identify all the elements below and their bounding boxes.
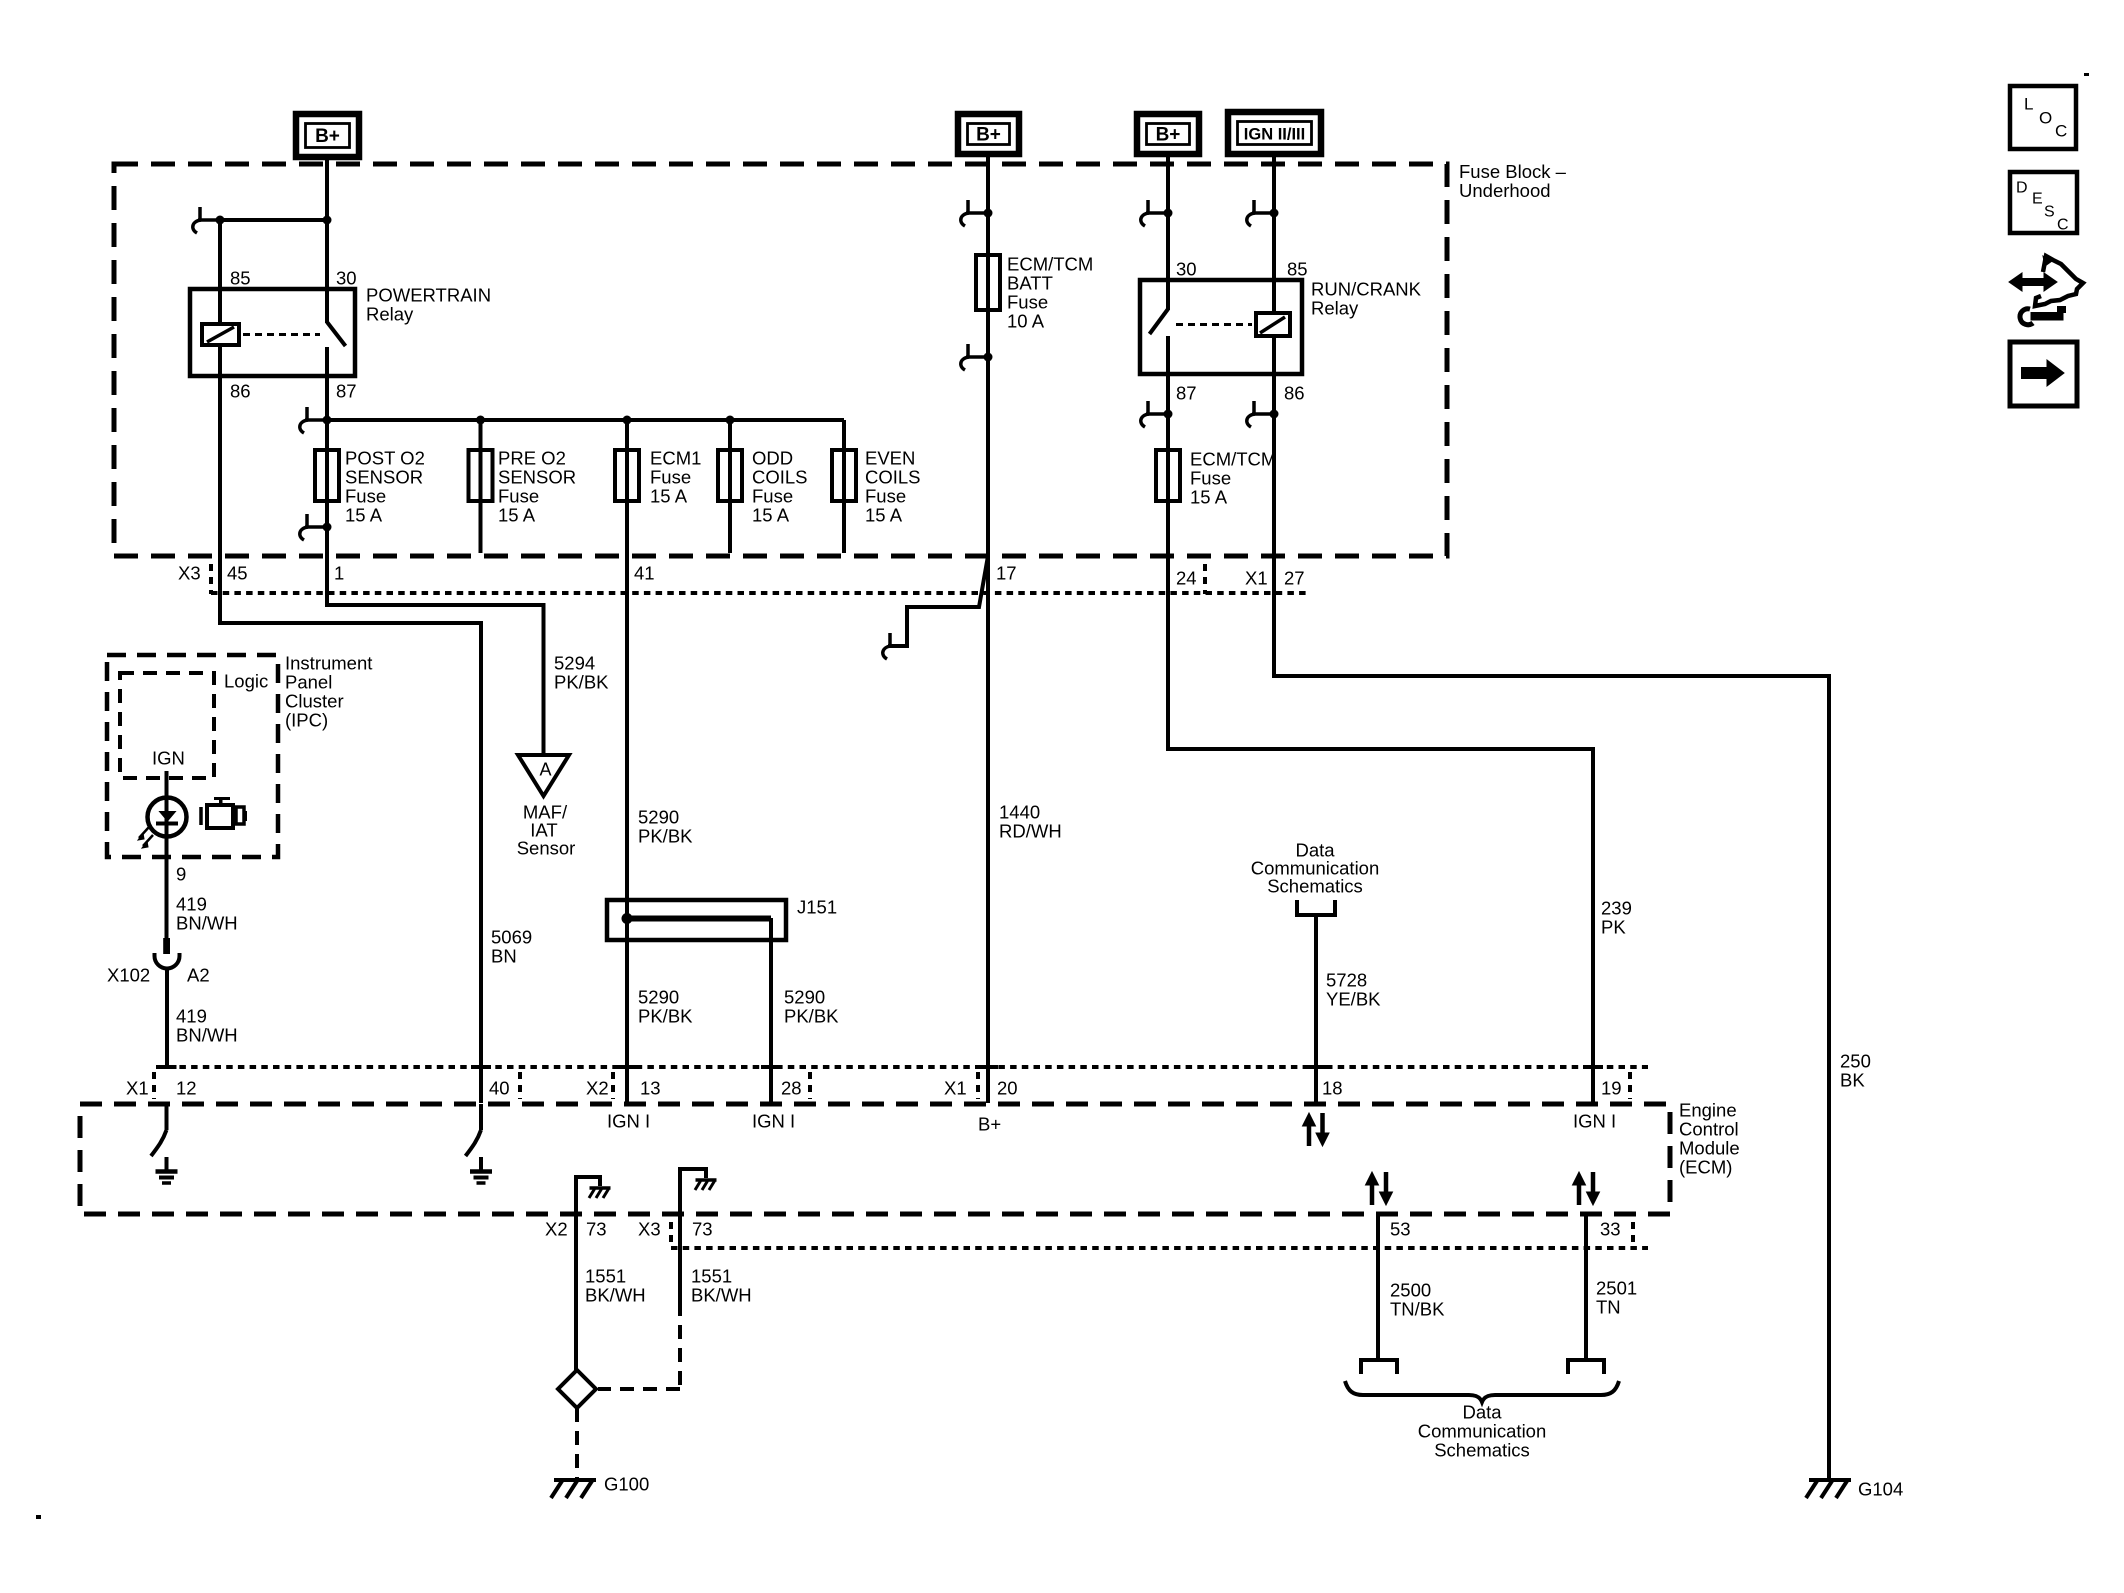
svg-text:86: 86 [230, 380, 251, 401]
icon vehicle diagnostic glyph [2009, 256, 2083, 325]
svg-text:G100: G100 [604, 1473, 649, 1494]
label 5290 PK/BK lower left [638, 986, 693, 1026]
wire 2500 TN/BK from pin 53 [1376, 1214, 1380, 1359]
svg-text:BK/WH: BK/WH [691, 1284, 752, 1305]
svg-text:C: C [2055, 121, 2067, 140]
hook continuation on x988 wire upper [961, 200, 993, 226]
svg-text:250: 250 [1840, 1050, 1871, 1071]
junction ODD COILS fuse tap [726, 416, 735, 425]
svg-text:15 A: 15 A [752, 504, 790, 525]
label Instrument Panel Cluster (IPC) [285, 652, 372, 730]
svg-text:COILS: COILS [752, 466, 808, 487]
svg-text:30: 30 [1176, 258, 1197, 279]
svg-text:EVEN: EVEN [865, 447, 915, 468]
icon forward arrow box [2010, 342, 2077, 406]
svg-text:J151: J151 [797, 896, 837, 917]
svg-text:O: O [2039, 108, 2052, 127]
label X102 [107, 964, 150, 985]
dotted tick after pin 40 [518, 1072, 522, 1099]
pin 85 label [230, 267, 251, 288]
connector X3 dotted tick [209, 564, 213, 594]
icon LOC box [2010, 86, 2076, 149]
pin 17 label [996, 562, 1017, 583]
label Engine Control Module (ECM) [1679, 1099, 1740, 1177]
fuse block connector dotted line [211, 591, 1310, 595]
wire B+ x1168 down to relay pin 30 [1166, 164, 1170, 280]
svg-text:5294: 5294 [554, 652, 595, 673]
ECM data arrows pin 18 [1303, 1113, 1330, 1146]
label Data Communication Schematics (upper) [1251, 839, 1380, 896]
hook continuation on x1274 wire [1247, 200, 1279, 226]
label 5294 PK/BK [554, 652, 609, 692]
svg-text:PK/BK: PK/BK [784, 1005, 839, 1026]
svg-text:S: S [2044, 203, 2055, 220]
svg-text:24: 24 [1176, 567, 1197, 588]
bottom connector dotted line [671, 1246, 1648, 1250]
ground G104 chassis symbol [1806, 1480, 1851, 1498]
svg-text:X1: X1 [1245, 567, 1268, 588]
relay switch (run/crank) [1150, 280, 1169, 374]
wire branch jog at pin 17 [888, 556, 988, 646]
svg-text:10 A: 10 A [1007, 310, 1045, 331]
svg-text:Panel: Panel [285, 671, 332, 692]
label ODD COILS Fuse 15 A [752, 447, 808, 525]
svg-text:19: 19 [1601, 1077, 1622, 1098]
svg-text:D: D [2016, 179, 2028, 196]
dotted tick after pin 19 [1628, 1072, 1632, 1099]
wire 5294 PK/BK from pin 1 to MAF/IAT [327, 553, 544, 754]
svg-text:PK: PK [1601, 916, 1626, 937]
label 1440 RD/WH [999, 801, 1062, 841]
wire crossing ticks at ECM connector [157, 1065, 1604, 1069]
svg-text:239: 239 [1601, 897, 1632, 918]
svg-text:IGN I: IGN I [607, 1110, 650, 1131]
svg-text:33: 33 [1600, 1218, 1621, 1239]
svg-text:Schematics: Schematics [1267, 875, 1363, 896]
brace data communication [1345, 1381, 1619, 1402]
terminal cap 2501 [1568, 1360, 1604, 1374]
svg-text:(ECM): (ECM) [1679, 1156, 1732, 1177]
label IGN node [152, 747, 185, 768]
hook continuation below pin 87 [1141, 401, 1173, 427]
svg-text:73: 73 [692, 1218, 713, 1239]
svg-text:BK: BK [1840, 1069, 1865, 1090]
svg-text:85: 85 [1287, 258, 1308, 279]
svg-text:Fuse: Fuse [650, 466, 691, 487]
pin 73 label (X3) [692, 1218, 713, 1239]
label 2501 TN [1596, 1277, 1637, 1317]
label 250 BK [1840, 1050, 1871, 1090]
wire ODD COILS fuse column [728, 420, 732, 553]
label RUN/CRANK Relay [1311, 278, 1422, 318]
svg-text:A2: A2 [187, 964, 210, 985]
svg-text:Fuse: Fuse [752, 485, 793, 506]
svg-text:Fuse: Fuse [1007, 291, 1048, 312]
pin 20 label [997, 1077, 1018, 1098]
LED emission arrows [138, 827, 153, 848]
hook continuation at pin85 branch [193, 207, 225, 233]
net B+ label (pin 20) [978, 1113, 1001, 1134]
icon DESC box [2010, 172, 2077, 233]
pin 87 label [336, 380, 357, 401]
svg-text:X2: X2 [545, 1218, 568, 1239]
svg-text:X1: X1 [126, 1077, 149, 1098]
svg-text:5290: 5290 [638, 986, 679, 1007]
wire pin 87 down to ECM/TCM fuse [1166, 374, 1170, 553]
off-page bracket (data comm upper) [1297, 900, 1335, 915]
ECM internal earth ground (pin 40) [470, 1157, 492, 1183]
label ECM/TCM Fuse 15 A [1190, 448, 1276, 507]
fuse block - underhood dashed boundary [114, 164, 1447, 556]
label G100 [604, 1473, 649, 1494]
wire pin 87 down to fuse bus [325, 376, 329, 420]
svg-text:B+: B+ [315, 126, 340, 147]
ECM internal earth ground (pin 12) [156, 1157, 178, 1183]
label A2 [187, 964, 210, 985]
wire IGN II/III down to relay pin 85 [1272, 164, 1276, 313]
wire 1551 BK/WH X3-73 dashed to splice [598, 1214, 680, 1389]
label 1551 BK/WH (X2) [585, 1265, 646, 1305]
fuse F6 ECM/TCM BATT 10A [976, 255, 1000, 310]
svg-text:PRE O2: PRE O2 [498, 447, 566, 468]
svg-text:Relay: Relay [1311, 297, 1359, 318]
label EVEN COILS Fuse 15 A [865, 447, 921, 525]
fuse F5 EVEN COILS 15A [832, 450, 856, 501]
ECM internal ground lead X3-73 [680, 1169, 706, 1214]
label Fuse Block - Underhood [1459, 161, 1567, 201]
svg-text:1551: 1551 [691, 1265, 732, 1286]
ECM connector dotted line [156, 1065, 1648, 1069]
svg-text:Data: Data [1462, 1401, 1502, 1422]
svg-text:TN: TN [1596, 1296, 1621, 1317]
svg-text:B+: B+ [978, 1113, 1001, 1134]
label 419 BN/WH upper [176, 893, 238, 933]
svg-text:17: 17 [996, 562, 1017, 583]
svg-text:1440: 1440 [999, 801, 1040, 822]
label G104 [1858, 1478, 1903, 1499]
svg-text:40: 40 [489, 1077, 510, 1098]
connector X3 label (bottom) [638, 1218, 661, 1239]
svg-text:IGN I: IGN I [1573, 1110, 1616, 1131]
svg-text:13: 13 [640, 1077, 661, 1098]
dotted tick after pin 28 [808, 1072, 812, 1099]
wire pin 86 down to X1-27 [1272, 374, 1276, 553]
label MAF/IAT Sensor [517, 801, 576, 858]
label 5069 BN [491, 926, 532, 966]
power feed B+ (run/crank relay) [1137, 114, 1199, 154]
pin 28 label [781, 1077, 802, 1098]
svg-text:Cluster: Cluster [285, 690, 344, 711]
pin 19 label [1601, 1077, 1622, 1098]
fuse F2 PRE O2 SENSOR 15A [469, 450, 493, 501]
dotted tick after pin 33 [1631, 1222, 1635, 1248]
svg-text:Communication: Communication [1418, 1420, 1547, 1441]
wire ECM1 fuse column [625, 420, 629, 553]
dotted tick before pin 13 [611, 1072, 615, 1099]
wire down to pin 85 [218, 220, 222, 289]
svg-text:9: 9 [176, 863, 186, 884]
fuse F4 ODD COILS 15A [718, 450, 742, 501]
label 5290 PK/BK upper [638, 806, 693, 846]
relay coil-switch link dashed (run/crank) [1176, 323, 1252, 326]
wire 5728 YE/BK to ECM pin 18 [1314, 915, 1318, 1103]
svg-text:SENSOR: SENSOR [498, 466, 576, 487]
wire B+ to fuse block (x1168) [1166, 154, 1170, 168]
svg-text:E: E [2032, 190, 2043, 207]
fuse F3 ECM1 15A [615, 450, 639, 501]
svg-text:RD/WH: RD/WH [999, 820, 1062, 841]
svg-text:15 A: 15 A [1190, 486, 1228, 507]
label J151 [797, 896, 837, 917]
svg-text:Fuse: Fuse [865, 485, 906, 506]
pin 27 label [1284, 567, 1305, 588]
wire 5069 BN from X3-45 to ECM pin 40 [220, 553, 481, 1103]
relay switch (powertrain) [327, 289, 346, 376]
fuse F1 POST O2 SENSOR 15A [315, 450, 339, 501]
wire splice to G100 dashed [575, 1408, 579, 1478]
connector X3 label [178, 562, 201, 583]
svg-text:(IPC): (IPC) [285, 709, 328, 730]
svg-text:Engine: Engine [1679, 1099, 1737, 1120]
svg-text:12: 12 [176, 1077, 197, 1098]
svg-text:BN/WH: BN/WH [176, 1024, 238, 1045]
svg-text:1: 1 [334, 562, 344, 583]
ECM data arrows pin 53 [1366, 1172, 1393, 1205]
svg-text:419: 419 [176, 893, 207, 914]
svg-text:X2: X2 [586, 1077, 609, 1098]
pin 86 label (run/crank) [1284, 382, 1305, 403]
net IGN I label (pin 19) [1573, 1110, 1616, 1131]
svg-text:5290: 5290 [638, 806, 679, 827]
ECM data arrows pin 33 [1573, 1172, 1600, 1205]
connector X1 dotted tick (fuse block) [1203, 564, 1207, 594]
label 2500 TN/BK [1390, 1279, 1445, 1319]
svg-text:SENSOR: SENSOR [345, 466, 423, 487]
svg-text:Fuse: Fuse [498, 485, 539, 506]
net IGN I label (pin 28) [752, 1110, 795, 1131]
svg-text:15 A: 15 A [650, 485, 688, 506]
connector X2 label (bottom) [545, 1218, 568, 1239]
svg-text:X3: X3 [178, 562, 201, 583]
svg-text:BN/WH: BN/WH [176, 912, 238, 933]
svg-text:ECM/TCM: ECM/TCM [1190, 448, 1276, 469]
wire B+ to fuse block (x988) [986, 154, 990, 168]
hook continuation on x988 wire lower [961, 344, 993, 370]
svg-text:Logic: Logic [224, 670, 268, 691]
svg-text:53: 53 [1390, 1218, 1411, 1239]
svg-text:85: 85 [230, 267, 251, 288]
svg-text:YE/BK: YE/BK [1326, 988, 1381, 1009]
svg-text:C: C [2057, 216, 2069, 233]
wire EVEN COILS fuse column [842, 420, 846, 553]
connector X1 label (ECM pin 12) [126, 1077, 149, 1098]
svg-text:X3: X3 [638, 1218, 661, 1239]
wire 5290 PK/BK J151 to ECM pin 28 [769, 918, 773, 1103]
splice J151 internal bus [622, 913, 772, 924]
svg-text:TN/BK: TN/BK [1390, 1298, 1445, 1319]
tiny mark bottom left [36, 1515, 41, 1519]
pin 1 label [334, 562, 344, 583]
svg-text:87: 87 [336, 380, 357, 401]
connector X1 dotted tick (pin 12) [152, 1072, 156, 1099]
pin 53 label [1390, 1218, 1411, 1239]
svg-text:Module: Module [1679, 1137, 1740, 1158]
hook continuation below pin 86 [1247, 401, 1279, 427]
pin 87 label (run/crank) [1176, 382, 1197, 403]
fuse F7 ECM/TCM 15A [1156, 450, 1180, 501]
dotted tick X3 bottom [669, 1222, 673, 1248]
svg-text:45: 45 [227, 562, 248, 583]
svg-text:POWERTRAIN: POWERTRAIN [366, 284, 491, 305]
relay K2 RUN/CRANK box [1140, 280, 1302, 374]
svg-text:2500: 2500 [1390, 1279, 1431, 1300]
relay coil (powertrain) [202, 289, 239, 376]
wire 250 BK from X1-27 to G104 [1274, 553, 1829, 1479]
inline connector X102 terminal A2 [155, 938, 180, 1067]
power feed B+ (powertrain relay) [296, 114, 359, 157]
svg-text:ECM/TCM: ECM/TCM [1007, 253, 1093, 274]
dotted tick before pin 20 [976, 1072, 980, 1099]
hook continuation at 17 branch end [883, 633, 891, 659]
svg-text:POST O2: POST O2 [345, 447, 425, 468]
ground G100 chassis symbol [551, 1480, 596, 1498]
svg-text:BN: BN [491, 945, 517, 966]
svg-text:5728: 5728 [1326, 969, 1367, 990]
wire B+ to fuse block (x327) [325, 157, 329, 168]
indicator LED circle (MIL) [148, 798, 187, 837]
pin 45 label [227, 562, 248, 583]
fuse bus horizontal [327, 418, 844, 422]
relay coil-switch link dashed [243, 333, 320, 336]
wire pin 86 down to X3-45 [218, 376, 222, 553]
svg-text:IGN II/III: IGN II/III [1244, 126, 1305, 144]
pin 24 label [1176, 567, 1197, 588]
svg-text:Control: Control [1679, 1118, 1739, 1139]
svg-text:Fuse Block –: Fuse Block – [1459, 161, 1567, 182]
svg-text:15 A: 15 A [498, 504, 536, 525]
svg-text:ODD: ODD [752, 447, 793, 468]
svg-text:PK/BK: PK/BK [638, 1005, 693, 1026]
wire IGN to indicator [165, 771, 169, 952]
pin 40 label [489, 1077, 510, 1098]
wire PRE O2 fuse column [479, 420, 483, 553]
svg-text:87: 87 [1176, 382, 1197, 403]
check engine icon [201, 797, 247, 830]
wire 1440 RD/WH B+ x988 to ECM pin 20 [986, 553, 990, 1103]
splice pack J151 box [607, 900, 786, 940]
svg-text:Fuse: Fuse [345, 485, 386, 506]
pin 30 label (run/crank) [1176, 258, 1197, 279]
svg-text:41: 41 [634, 562, 655, 583]
pin 30 label [336, 267, 357, 288]
label ECM/TCM BATT Fuse 10 A [1007, 253, 1093, 331]
svg-text:30: 30 [336, 267, 357, 288]
junction PRE O2 fuse tap [476, 416, 485, 425]
engine control module dashed boundary [80, 1104, 1670, 1214]
pin 73 label (X2) [586, 1218, 607, 1239]
svg-text:Fuse: Fuse [1190, 467, 1231, 488]
wire IGN II/III to fuse block (x1274) [1272, 154, 1276, 168]
svg-text:X102: X102 [107, 964, 150, 985]
svg-text:5069: 5069 [491, 926, 532, 947]
wire 5290 PK/BK pin 41 to ECM pin 13 [625, 553, 629, 1103]
relay K1 POWERTRAIN box [190, 289, 355, 376]
svg-text:IGN I: IGN I [752, 1110, 795, 1131]
svg-text:Relay: Relay [366, 303, 414, 324]
label Data Communication Schematics (lower) [1418, 1401, 1547, 1460]
svg-text:B+: B+ [976, 125, 1001, 146]
net IGN I label (pin 13) [607, 1110, 650, 1131]
chassis ground glyph X2-73 [589, 1188, 611, 1198]
hook continuation on x1168 wire [1141, 200, 1173, 226]
node junction on B+ wire [323, 216, 332, 225]
label Logic [224, 670, 268, 691]
wire junction to relay pin 85 branch [220, 218, 327, 222]
label ECM1 Fuse 15 A [650, 447, 701, 506]
svg-text:B+: B+ [1156, 125, 1181, 146]
chassis ground glyph X3-73 [695, 1180, 717, 1190]
pin 18 label [1322, 1077, 1343, 1098]
instrument panel cluster dashed box [107, 655, 278, 857]
svg-text:73: 73 [586, 1218, 607, 1239]
wire 239 PK from X1-24 to ECM pin 19 [1168, 553, 1593, 1103]
pin 13 label [640, 1077, 661, 1098]
pin 85 label (run/crank) [1287, 258, 1308, 279]
connector X1 label (fuse block) [1245, 567, 1268, 588]
svg-text:RUN/CRANK: RUN/CRANK [1311, 278, 1422, 299]
svg-text:5290: 5290 [784, 986, 825, 1007]
svg-text:15 A: 15 A [345, 504, 383, 525]
pin 33 label [1600, 1218, 1621, 1239]
off-page connector A triangle (MAF/IAT) [518, 755, 569, 796]
svg-text:20: 20 [997, 1077, 1018, 1098]
label PRE O2 SENSOR Fuse 15 A [498, 447, 576, 525]
svg-text:BATT: BATT [1007, 272, 1053, 293]
logic dashed box [120, 673, 214, 778]
svg-text:G104: G104 [1858, 1478, 1903, 1499]
hook continuation at bus start [300, 407, 332, 433]
svg-text:28: 28 [781, 1077, 802, 1098]
splice diamond [558, 1370, 596, 1408]
label POST O2 SENSOR Fuse 15 A [345, 447, 425, 525]
label 419 BN/WH lower [176, 1005, 238, 1045]
pin 41 label [634, 562, 655, 583]
wire POST O2 fuse column [325, 420, 329, 553]
tiny page mark top right [2084, 73, 2089, 76]
terminal cap 2500 [1361, 1360, 1397, 1374]
hook continuation below POST O2 fuse [300, 514, 332, 540]
pin 9 label [176, 863, 186, 884]
power feed B+ (ECM/TCM BATT fuse) [958, 114, 1019, 154]
svg-text:ECM1: ECM1 [650, 447, 701, 468]
ECM internal ground switch pin 12 [151, 1104, 167, 1156]
svg-text:PK/BK: PK/BK [554, 671, 609, 692]
label 239 PK [1601, 897, 1632, 937]
power feed IGN II/III [1228, 112, 1321, 154]
svg-text:PK/BK: PK/BK [638, 825, 693, 846]
pin 86 label [230, 380, 251, 401]
svg-text:86: 86 [1284, 382, 1305, 403]
connector X2 label (ECM) [586, 1077, 609, 1098]
label 1551 BK/WH (X3) [691, 1265, 752, 1305]
svg-text:A: A [539, 759, 551, 779]
label 5728 YE/BK [1326, 969, 1381, 1009]
svg-text:Underhood: Underhood [1459, 180, 1551, 201]
svg-text:419: 419 [176, 1005, 207, 1026]
svg-text:15 A: 15 A [865, 504, 903, 525]
ECM internal ground lead X2-73 [576, 1177, 600, 1214]
label 5290 PK/BK lower right [784, 986, 839, 1026]
